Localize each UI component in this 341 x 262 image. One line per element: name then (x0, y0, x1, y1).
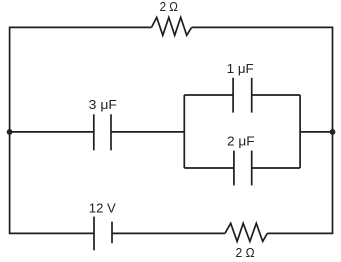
wire box bottom-left to C3 (184, 167, 234, 169)
resistor R2 (2 ohm, bottom) (225, 223, 267, 241)
capacitor C3 (2 uF) left plate (233, 151, 235, 186)
svg-text:2 Ω: 2 Ω (236, 245, 255, 260)
wire top-right segment (192, 27, 333, 131)
wire bottom-right segment (267, 132, 332, 234)
wire box to right dot (300, 131, 332, 133)
node B (right junction dot) (330, 129, 336, 135)
capacitor C1 (3 uF) left plate (93, 114, 95, 150)
wire left dot to C1 (10, 131, 94, 133)
capacitor C2 (1 uF) right plate (251, 78, 253, 113)
wire box top-left to C2 (184, 94, 233, 96)
svg-text:3 μF: 3 μF (89, 97, 117, 112)
capacitor C3 (2 uF) right plate (251, 151, 253, 186)
capacitor C2 (1 uF) left plate (232, 78, 234, 113)
wire C3 to box bottom-right (252, 167, 300, 169)
wire C1 to parallel box (111, 131, 184, 133)
svg-text:1 μF: 1 μF (227, 61, 254, 76)
battery V1 short plate (111, 222, 113, 244)
battery V1 (12 V) long plate (93, 217, 95, 251)
wire C2 to box top-right (252, 94, 300, 96)
svg-text:2 Ω: 2 Ω (160, 0, 179, 14)
wire battery to resistor (112, 232, 225, 234)
capacitor C1 (3 uF) right plate (110, 114, 112, 150)
parallel box right rail (299, 95, 301, 168)
parallel box left rail (183, 95, 185, 168)
svg-text:12 V: 12 V (89, 201, 116, 216)
wire left-bottom segment (10, 132, 94, 234)
svg-text:2 μF: 2 μF (227, 134, 255, 149)
node A (left junction dot) (7, 129, 13, 135)
wire top-left segment (10, 27, 152, 131)
resistor R1 (2 ohm, top) (152, 17, 192, 35)
